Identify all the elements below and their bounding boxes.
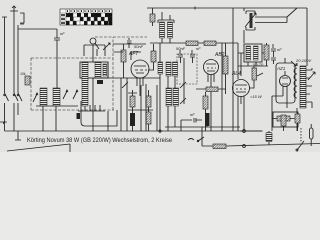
svg-text:AL4: AL4: [231, 71, 241, 77]
coil T1b: [168, 22, 173, 38]
coil box L1: [80, 62, 108, 78]
switch S6 mains: [296, 141, 304, 151]
coil T2a: [166, 62, 171, 76]
wire coil bottoms: [36, 101, 105, 131]
IF transformer T2: [158, 62, 163, 74]
resistor R12: [264, 45, 269, 60]
tube V1 AF7: [131, 60, 149, 96]
wire bottom left diagonal: [7, 144, 70, 152]
wire speaker: [272, 118, 295, 120]
resistor R7: [223, 56, 228, 74]
svg-text:nF: nF: [277, 47, 282, 52]
coil T4b: [254, 46, 259, 60]
tube V4 AZ1: [280, 76, 291, 97]
capacitor C7: [271, 44, 276, 55]
antenna: [10, 6, 18, 11]
ground bus: [5, 130, 263, 132]
wire tuning: [243, 8, 245, 43]
switch arrow S3: [63, 90, 68, 99]
wire transformer: [297, 63, 312, 131]
arrow to R13: [257, 73, 263, 76]
wire AZ1: [272, 58, 287, 131]
capacitor C11 electrolytic 8uF: [266, 131, 272, 145]
wire AL4: [238, 53, 254, 131]
dashed coupling box: [177, 54, 197, 84]
resistor R16: [281, 115, 286, 126]
wire antenna lead: [13, 11, 15, 131]
svg-text:20-100V: 20-100V: [295, 58, 311, 63]
wire mid-bottom: [121, 78, 157, 131]
wire center: [196, 43, 226, 131]
trimmer arrow: [103, 43, 110, 50]
switch S5: [188, 137, 204, 142]
trimmer arrow T2: [122, 82, 128, 88]
capacitor C3: [190, 50, 195, 63]
node diamond: [159, 130, 162, 133]
coil L3: [40, 88, 47, 106]
capacitor C4 electrolytic: [130, 113, 135, 126]
coil L2b: [103, 64, 107, 76]
dashed wire: [300, 128, 302, 142]
switch S1b: [17, 93, 22, 101]
resistor R6: [204, 41, 216, 46]
wire bus grid: [93, 45, 160, 131]
dash-dot shield box left: [31, 37, 147, 110]
coil T1a: [160, 22, 165, 38]
svg-text:10k: 10k: [20, 72, 26, 76]
coil L4: [53, 88, 60, 106]
wire osc area: [238, 43, 268, 79]
resistor R13: [252, 68, 257, 80]
svg-text:AZ1: AZ1: [276, 66, 286, 71]
coil L1: [82, 62, 88, 106]
dial cord: [255, 8, 297, 23]
switch arrow S4: [73, 90, 78, 99]
resistor R11: [146, 96, 151, 107]
oscillator coil T4: [244, 44, 262, 62]
capacitor C9: [181, 118, 202, 123]
node J2: [243, 145, 246, 148]
wire top rail: [147, 8, 307, 26]
coil L2: [95, 62, 101, 78]
wire second lead: [17, 25, 19, 115]
wire grid row: [113, 43, 146, 45]
wire rail 43: [150, 42, 238, 44]
wire R1: [123, 44, 125, 78]
rail tap mark: [194, 7, 196, 10]
switch S1a: [13, 93, 18, 101]
resistor R17: [295, 114, 300, 123]
tube V2 AB2: [204, 60, 219, 132]
svg-text:nF: nF: [60, 31, 65, 36]
ground left tick: [0, 122, 7, 124]
antenna coupling contact: [20, 13, 24, 24]
resistor R1: [121, 50, 126, 62]
padding capacitor block: [97, 80, 103, 84]
wire right drop: [233, 8, 307, 131]
svg-text:nF: nF: [190, 112, 195, 117]
wire R7: [225, 43, 227, 94]
IF transformer T1: [158, 20, 174, 23]
tube V3 AL4: [233, 80, 250, 105]
switch S1c: [4, 93, 9, 101]
svg-text:50nF: 50nF: [134, 44, 144, 49]
svg-text:=15 W: =15 W: [250, 94, 263, 99]
svg-text:50nF: 50nF: [176, 46, 186, 51]
trimmer arrows T3: [180, 82, 186, 104]
switch arrow S2: [33, 93, 38, 102]
field coil R14: [277, 116, 290, 121]
node J1: [243, 130, 246, 133]
resistor R10: [130, 96, 135, 107]
svg-text:Körting Novum 38 W (GB 220/W): Körting Novum 38 W (GB 220/W) Wechselstr…: [27, 137, 173, 144]
power transformer T5: [294, 66, 312, 108]
tap arrow: [308, 72, 315, 80]
ground symbol G1: [15, 131, 21, 140]
wire C1 down: [56, 46, 58, 88]
wire grid AF7: [114, 44, 155, 70]
wire T1 down: [162, 12, 170, 43]
resistor R15: [213, 144, 226, 149]
capacitor C8: [271, 55, 276, 64]
coil T4a: [246, 46, 251, 60]
wire mains: [202, 131, 320, 146]
trimmer block: [77, 113, 81, 119]
resistor R9: [203, 96, 208, 109]
capacitor C12: [127, 38, 132, 48]
resistor R4 top: [150, 14, 155, 22]
resistor R8: [206, 87, 218, 92]
capacitor C10 electrolytic: [205, 113, 210, 126]
rectifier box: [276, 63, 295, 103]
resistor R3: [151, 51, 156, 62]
svg-text:50-70: 50-70: [253, 62, 264, 67]
resistor R5: [186, 41, 198, 46]
band switch table: [60, 9, 112, 25]
tuning capacitor C6: [245, 11, 256, 30]
resistor R2: [25, 76, 30, 85]
coil T3b: [173, 88, 179, 106]
arrow into box: [291, 61, 296, 66]
coil T2b: [173, 62, 178, 76]
IF transformer T3: [166, 88, 172, 106]
wire to C1: [18, 29, 57, 38]
capacitor C5: [146, 112, 151, 124]
capacitor C2: [178, 50, 183, 63]
svg-text:nF: nF: [196, 46, 201, 51]
speaker box: [273, 112, 298, 127]
rotary switch: [84, 38, 105, 56]
wire bottom right: [284, 123, 298, 131]
fuse F1: [310, 124, 314, 146]
wire IF area: [160, 43, 184, 131]
earth terminal: [2, 17, 7, 131]
wire elbow to IF: [81, 110, 117, 126]
capacitor C1: [54, 38, 60, 46]
wire bottom mid: [165, 120, 240, 146]
